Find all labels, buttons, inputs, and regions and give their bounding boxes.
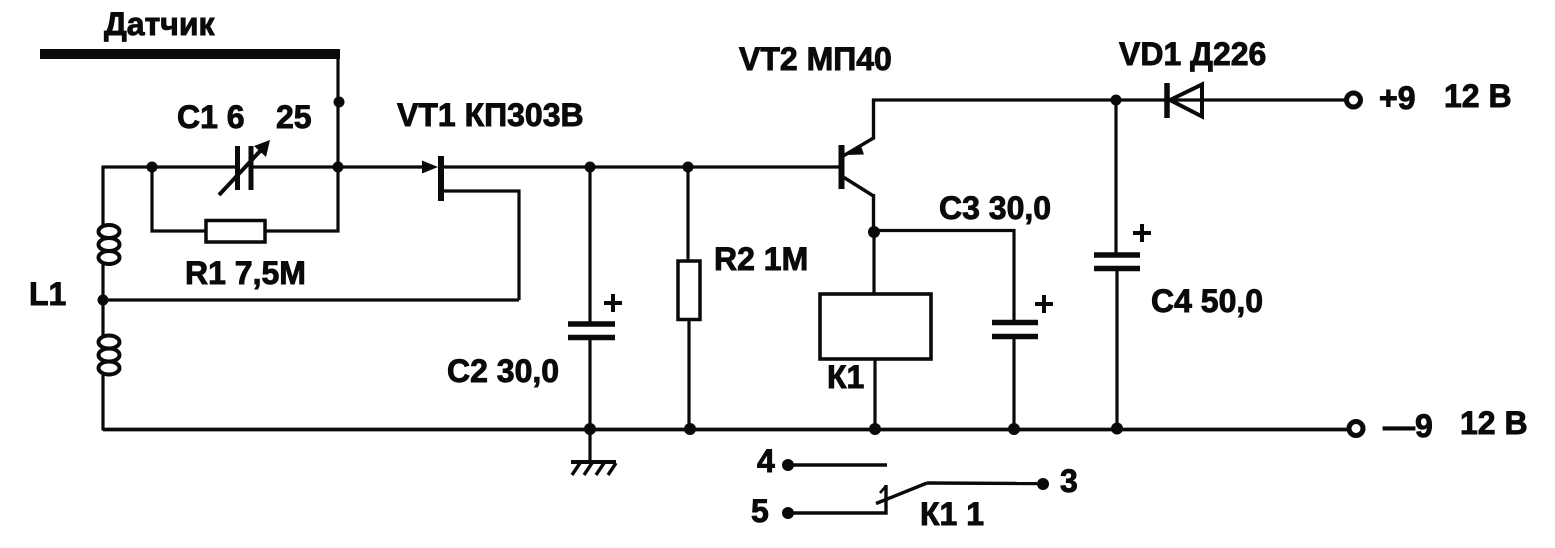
transistor VT2 emitter with arrow bbox=[844, 99, 874, 156]
svg-text:C3 30,0: C3 30,0 bbox=[939, 190, 1051, 226]
wire VT1 source lead bbox=[443, 191, 519, 300]
wire left vertical top bbox=[101, 166, 104, 227]
resistor R2 body bbox=[678, 261, 700, 320]
wire collector to relay coil bbox=[872, 232, 875, 295]
sensor plate (thick bar) bbox=[40, 49, 340, 59]
relay contact K1.1 movable arm bbox=[876, 483, 1037, 504]
svg-text:VT1 КП303В: VT1 КП303В bbox=[397, 97, 584, 133]
wire R2 branch lower bbox=[687, 319, 690, 429]
svg-text:25: 25 bbox=[276, 99, 312, 135]
relay K1 coil box bbox=[820, 294, 931, 359]
node L1 center tap bbox=[98, 295, 109, 306]
node R2 bottom junction bbox=[684, 423, 696, 435]
svg-text:C1 6: C1 6 bbox=[177, 99, 245, 135]
contact terminal 4 dot bbox=[782, 459, 794, 471]
wire top rail y=100 bbox=[872, 98, 1346, 101]
terminal +9 circle bbox=[1347, 93, 1361, 107]
wire contact 5 with riser bbox=[792, 485, 886, 513]
wire collector to C3 bbox=[874, 231, 1014, 324]
wire C2 branch upper bbox=[588, 167, 591, 322]
svg-text:+9: +9 bbox=[1379, 80, 1415, 116]
wire contact 4 bbox=[792, 463, 887, 466]
wire center tap to VT1 source y=300 bbox=[103, 298, 519, 301]
wire sensor bar down to gate line bbox=[336, 57, 339, 167]
wire relay coil to bottom rail bbox=[873, 359, 876, 429]
transistor VT2 collector bbox=[844, 178, 874, 234]
node C4 top junction bbox=[1111, 95, 1122, 106]
capacitor C4 plus sign bbox=[1133, 224, 1151, 242]
svg-text:К1 1: К1 1 bbox=[920, 496, 984, 532]
capacitor C1 label bbox=[177, 99, 312, 135]
svg-text:3: 3 bbox=[1060, 463, 1078, 499]
terminal -9 circle bbox=[1349, 422, 1363, 436]
transistor VT1 gate arrow bbox=[422, 161, 438, 174]
diode VD1 bbox=[1167, 83, 1202, 118]
transistor VT2 base bar bbox=[839, 145, 845, 189]
capacitor C3 plus sign bbox=[1035, 295, 1053, 313]
capacitor C2 plus sign bbox=[604, 294, 622, 312]
node junction C1 left bbox=[147, 162, 158, 173]
node junction C1 right bbox=[333, 162, 344, 173]
wire R2 branch upper bbox=[686, 167, 689, 263]
label -9 12 V bbox=[1383, 405, 1528, 444]
svg-text:L1: L1 bbox=[29, 276, 66, 312]
wire gate line y=167 bbox=[103, 165, 237, 168]
svg-text:—9: —9 bbox=[1383, 408, 1433, 444]
label +9 12 V bbox=[1379, 78, 1512, 116]
node VT2 collector junction bbox=[868, 226, 880, 238]
capacitor C4 plates bbox=[1094, 255, 1140, 269]
capacitor C1 adjustment arrow bbox=[219, 140, 270, 195]
wire left vertical bottom bbox=[101, 373, 104, 431]
svg-text:Датчик: Датчик bbox=[104, 6, 216, 42]
wire C4 branch lower bbox=[1115, 271, 1118, 429]
wire VT1 drain to VT2 base y=167 bbox=[443, 165, 840, 168]
resistor R1 body bbox=[206, 221, 265, 243]
inductor L1 upper winding bbox=[99, 225, 120, 264]
svg-text:VD1 Д226: VD1 Д226 bbox=[1119, 36, 1266, 72]
capacitor C2 plates bbox=[568, 324, 615, 338]
wire bottom rail bbox=[103, 428, 1347, 432]
wire between windings bbox=[101, 262, 104, 338]
wire C3 branch lower bbox=[1012, 339, 1015, 429]
wire C2 branch lower bbox=[588, 340, 591, 429]
capacitor C1 (variable) plates bbox=[238, 146, 252, 190]
svg-text:C4 50,0: C4 50,0 bbox=[1151, 283, 1263, 319]
svg-text:К1: К1 bbox=[827, 359, 864, 395]
svg-text:VT2 МП40: VT2 МП40 bbox=[739, 41, 892, 77]
node R2 top junction bbox=[683, 162, 694, 173]
capacitor C3 plates bbox=[992, 323, 1038, 337]
node C4 bottom junction bbox=[1111, 423, 1123, 435]
svg-text:C2 30,0: C2 30,0 bbox=[447, 353, 559, 389]
svg-text:4: 4 bbox=[757, 443, 775, 479]
wire C4 branch upper bbox=[1114, 100, 1117, 253]
transistor VT1 channel bar bbox=[438, 156, 444, 201]
contact terminal 3 dot bbox=[1037, 478, 1049, 490]
contact terminal 5 dot bbox=[782, 507, 794, 519]
svg-text:R2 1М: R2 1М bbox=[714, 241, 808, 277]
node C2 bottom junction bbox=[584, 423, 596, 435]
svg-text:R1 7,5М: R1 7,5М bbox=[185, 255, 306, 291]
ground symbol bbox=[571, 429, 616, 475]
svg-text:12 В: 12 В bbox=[1444, 78, 1512, 114]
svg-text:5: 5 bbox=[751, 493, 769, 529]
wire R1 loop bbox=[152, 167, 338, 231]
svg-text:12 В: 12 В bbox=[1460, 405, 1528, 441]
node relay bottom junction bbox=[869, 423, 881, 435]
node C2 top junction bbox=[585, 162, 596, 173]
inductor L1 lower winding bbox=[99, 336, 120, 375]
node dot on sensor drop wire bbox=[334, 97, 345, 108]
node C3 bottom junction bbox=[1008, 423, 1020, 435]
